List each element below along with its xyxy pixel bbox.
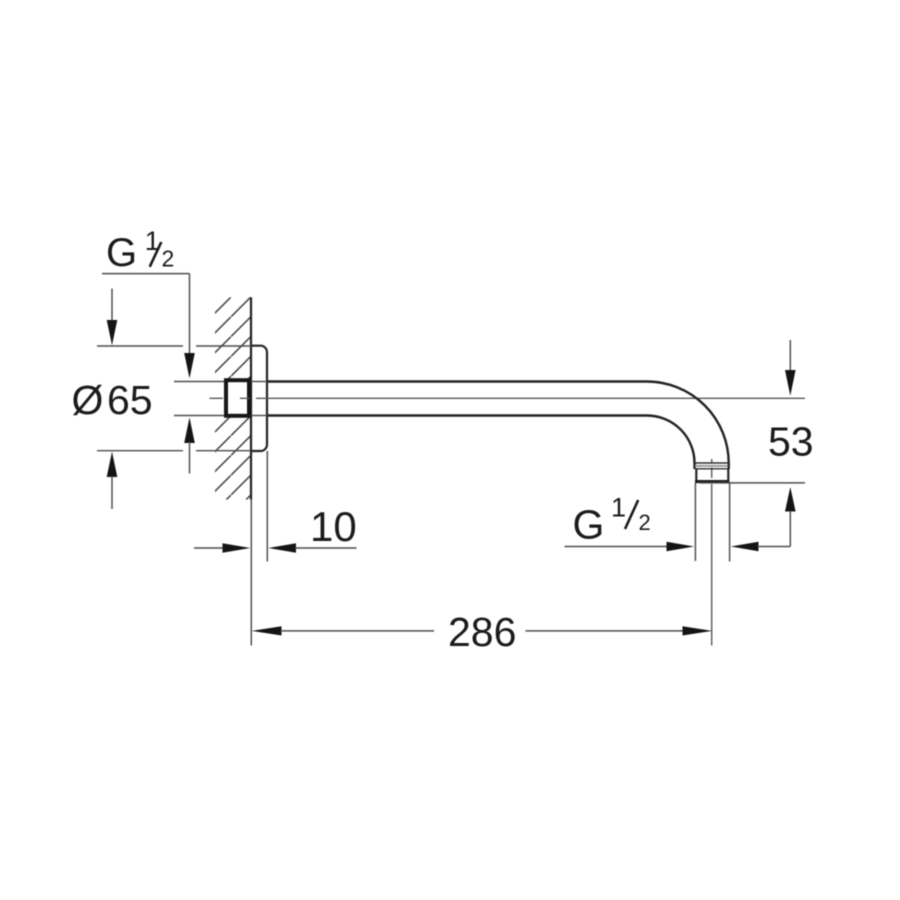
svg-text:Ø: Ø (72, 377, 104, 423)
svg-text:10: 10 (310, 503, 357, 550)
dimension G1/2 top: leader down arrow to pipe top (184, 274, 195, 379)
wall hatching upper section (215, 297, 251, 380)
dimension 10: wall-surface extension line below wall (250, 500, 252, 646)
dimension 10: left arrow pointing right (194, 543, 250, 552)
dimension G1/2 bottom: pipe edge extension lines (695, 483, 729, 562)
flange (escutcheon) on wall (251, 346, 267, 451)
dimension 10: right arrow pointing left (268, 543, 356, 552)
dimension G1/2 bottom: dimension line with right-pointing arrow (565, 542, 695, 551)
dimension Ø65: down arrow (107, 289, 118, 346)
svg-text:G: G (573, 502, 605, 548)
label 10 (310, 503, 357, 550)
dimension G1/2 top: up arrow to pipe bottom (184, 418, 195, 474)
svg-text:G: G (106, 231, 137, 275)
svg-text:53: 53 (768, 419, 814, 465)
dimension 53: lower extension line (700, 482, 805, 484)
square wall fitting (threaded union) (226, 380, 249, 416)
svg-text:286: 286 (448, 609, 516, 655)
thread end bottom edge (695, 469, 730, 482)
wall surface line (250, 297, 252, 499)
label 53 (768, 419, 814, 465)
pipe thin edges crossing flange (251, 382, 267, 416)
horizontal centerline of arm (210, 397, 806, 399)
svg-text:2: 2 (162, 246, 175, 272)
svg-text:65: 65 (107, 377, 153, 423)
label G1/2 top (106, 226, 174, 275)
dimension Ø65: lower extension line (97, 450, 251, 452)
vertical centerline of outlet end (711, 459, 713, 646)
dimension Ø65: upper extension line (97, 345, 251, 347)
svg-text:2: 2 (639, 510, 651, 535)
dimension G1/2 top: label line (102, 273, 190, 275)
dimension 286: line right segment with right arrow (526, 626, 713, 635)
dimension G1/2 bottom: left-pointing arrow with tail to corner (731, 542, 791, 551)
shower arm pipe inner edge (bottom, bend inner radius, left side) (267, 415, 695, 469)
svg-text:1: 1 (611, 492, 626, 522)
label G1/2 bottom (573, 492, 651, 547)
dimension 53: up arrow with tail joining G1/2 line (785, 487, 796, 547)
dimension Ø65: up arrow (107, 452, 118, 509)
dimension 286: line with left arrow (252, 626, 434, 635)
thread groove lines at outlet (695, 463, 728, 469)
label Ø65 (72, 377, 153, 423)
shower arm pipe outer edge (top, bend outer radius, right side) (267, 382, 729, 470)
wall hatching lower section (215, 417, 251, 499)
dimension 53: upper extension handled by centerline; down arrow (785, 340, 796, 396)
pipe extension lines left of square (174, 382, 224, 416)
dimension 10: flange-edge extension line (266, 451, 268, 562)
label 286 (448, 609, 516, 655)
